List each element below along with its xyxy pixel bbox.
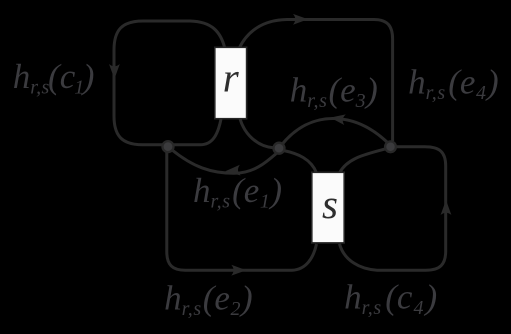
svg-text:r: r <box>223 54 240 100</box>
svg-text:hr,s(e3): hr,s(e3) <box>290 70 378 112</box>
svg-text:hr,s(e1): hr,s(e1) <box>193 171 282 213</box>
svg-text:hr,s(e2): hr,s(e2) <box>164 279 253 321</box>
arrow on c4 (up) <box>441 200 452 215</box>
vertex box s <box>312 172 344 243</box>
arrow on e4 (right) <box>293 14 308 25</box>
node dot3 <box>385 141 396 152</box>
node dot1 <box>163 141 174 152</box>
edge e3 arc (dot3 to dot2) <box>282 119 389 146</box>
vertex box r <box>215 47 247 118</box>
edge e4 (r top to dot3) <box>239 20 393 142</box>
edge e1 (dot1 to dot2) <box>172 150 278 174</box>
arrow on e1 (left-down) <box>225 165 241 177</box>
wire dot3 to s box top <box>340 149 386 173</box>
svg-text:hr,s(c4): hr,s(c4) <box>344 278 437 320</box>
arrow on c1 (down) <box>109 64 120 79</box>
svg-text:hr,s(e4): hr,s(e4) <box>408 63 499 105</box>
arrow on e2 (right) <box>231 265 246 276</box>
edge c4 loop (right rounded square, through s) <box>340 147 446 270</box>
svg-text:hr,s(c1): hr,s(c1) <box>13 57 95 99</box>
svg-text:s: s <box>322 181 338 227</box>
edge c1 loop (left rounded square, through r) <box>114 21 225 145</box>
edge e2 loop (dot1 down, bottom, to s box bottom) <box>167 152 317 270</box>
arrow on e3 (left-up) <box>329 112 345 125</box>
node dot2 <box>274 143 285 154</box>
wire r box bottom to dot2 <box>240 119 274 148</box>
wire dot2 to s box top <box>284 151 317 173</box>
